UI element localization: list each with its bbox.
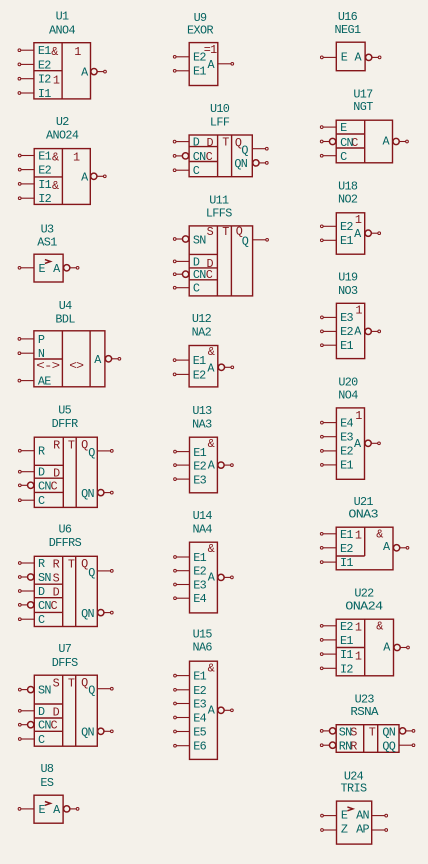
svg-text:AP: AP: [356, 822, 369, 836]
U7 pin SN (inverted set input): [18, 684, 51, 698]
U22 pin A (inverted output): [383, 640, 409, 654]
svg-text:U20: U20: [338, 376, 358, 390]
svg-text:1: 1: [355, 409, 362, 423]
IC U16 (NEG1) body outline: [336, 42, 365, 70]
svg-text:E: E: [341, 809, 348, 823]
IC U13 (NA3) body outline: [190, 437, 218, 493]
U15 pin E1 (input): [174, 670, 207, 684]
svg-text:DFFS: DFFS: [52, 656, 78, 670]
IC U6 (DFFRS) body outline: [34, 556, 97, 626]
U3 value label AS1: [37, 236, 57, 250]
svg-text:NA6: NA6: [192, 641, 212, 655]
svg-text:I1: I1: [340, 556, 353, 570]
svg-text:Q: Q: [81, 557, 88, 571]
svg-text:U3: U3: [41, 223, 54, 237]
svg-text:Q: Q: [88, 566, 95, 580]
U13 reference designator label: [192, 404, 212, 418]
svg-text:E2: E2: [193, 50, 206, 64]
U7 pin D (input): [18, 705, 45, 719]
U10 value label LFF: [210, 115, 230, 129]
svg-text:E1: E1: [193, 551, 206, 565]
svg-text:R: R: [38, 557, 45, 571]
U1 pin I2 (input): [18, 73, 51, 87]
U6 pin D (input): [18, 585, 45, 599]
U10 pin D (input): [173, 136, 200, 150]
svg-text:E1: E1: [38, 150, 51, 164]
svg-text:&: &: [51, 45, 58, 59]
U4 pin A (inverted output): [94, 353, 121, 367]
svg-text:U15: U15: [193, 628, 213, 642]
svg-text:E: E: [39, 262, 46, 276]
svg-text:P: P: [38, 333, 45, 347]
svg-text:NA4: NA4: [192, 522, 212, 536]
U6 pin QN (inverted output): [81, 607, 113, 621]
U1 pin E2 (input): [18, 58, 51, 72]
svg-text:U13: U13: [192, 404, 212, 418]
U7 pin QN (inverted output): [81, 726, 113, 740]
svg-text:U7: U7: [58, 642, 71, 656]
svg-text:QN: QN: [382, 725, 395, 739]
svg-text:BDL: BDL: [55, 313, 75, 327]
U22 pin E1 (input): [320, 634, 353, 648]
svg-text:SN: SN: [38, 571, 51, 585]
U12 value label NA2: [192, 325, 212, 339]
U23 value label RSNA: [350, 705, 379, 719]
IC U10 (LFF) body outline: [189, 135, 252, 177]
svg-text:E2: E2: [193, 368, 206, 382]
IC U2 (ANO24) body outline: [34, 149, 90, 205]
svg-text:1: 1: [355, 528, 362, 542]
svg-text:C: C: [51, 480, 58, 494]
U24 value label TRIS: [341, 782, 367, 796]
U12 reference designator label: [192, 312, 212, 326]
IC U7 (DFFS) body outline: [34, 675, 97, 746]
svg-text:D: D: [38, 466, 45, 480]
U23 pin QQ (output): [382, 740, 414, 754]
svg-text:Q: Q: [81, 438, 88, 452]
svg-text:U16: U16: [338, 10, 358, 24]
svg-text:S: S: [207, 225, 214, 239]
svg-text:E2: E2: [340, 542, 353, 556]
svg-text:E2: E2: [193, 565, 206, 579]
IC U12 (NA2) body outline: [189, 345, 218, 387]
U3 reference designator label: [41, 223, 54, 237]
IC U11 (LFFS) body outline: [189, 224, 252, 296]
U20 value label NO4: [338, 389, 358, 403]
svg-text:E1: E1: [193, 354, 206, 368]
U2 pin I2 (input): [18, 192, 51, 206]
svg-text:Q: Q: [242, 234, 249, 248]
U4 pin N (input): [18, 347, 45, 361]
U9 pin A (output): [208, 58, 234, 72]
svg-text:QN: QN: [81, 607, 94, 621]
U16 value label NEG1: [335, 23, 361, 37]
svg-text:E1: E1: [340, 634, 353, 648]
U23 pin RN (inverted reset input): [320, 740, 352, 754]
U11 value label LFFS: [206, 207, 232, 221]
svg-text:ONA24: ONA24: [345, 599, 383, 613]
svg-text:AS1: AS1: [37, 236, 57, 250]
U11 pin SN (inverted set input): [173, 234, 206, 248]
svg-text:T: T: [68, 677, 75, 691]
svg-text:E3: E3: [193, 474, 206, 488]
U21 pin E1 (input): [320, 528, 353, 542]
svg-text:E5: E5: [193, 726, 206, 740]
svg-text:CN: CN: [340, 136, 353, 150]
svg-text:E2: E2: [340, 620, 353, 634]
svg-text:1: 1: [355, 621, 362, 635]
svg-text:C: C: [340, 150, 347, 164]
U22 value label ONA24: [345, 599, 383, 613]
svg-text:E2: E2: [340, 325, 353, 339]
svg-text:Q: Q: [241, 144, 248, 158]
svg-text:RN: RN: [339, 740, 352, 754]
U7 pin Q (output): [88, 684, 113, 698]
svg-text:T: T: [222, 225, 229, 239]
U11 reference designator label: [209, 194, 229, 208]
U15 value label NA6: [192, 641, 212, 655]
svg-text:C: C: [193, 164, 200, 178]
svg-text:E1: E1: [340, 234, 353, 248]
svg-text:ANO24: ANO24: [46, 128, 79, 142]
svg-text:U14: U14: [193, 509, 213, 523]
U19 pin E3 (input): [321, 311, 354, 325]
svg-text:C: C: [51, 599, 58, 613]
U6 value label DFFRS: [49, 536, 82, 550]
U12 pin E2 (input): [173, 368, 206, 382]
U14 value label NA4: [192, 522, 212, 536]
U20 pin E3 (input): [321, 431, 354, 445]
U21 value label ONA3: [348, 508, 378, 522]
svg-text:D: D: [53, 705, 60, 719]
svg-text:C: C: [206, 150, 213, 164]
U14 pin E2 (input): [174, 565, 207, 579]
U13 pin E1 (input): [174, 446, 207, 460]
svg-text:E: E: [341, 51, 348, 65]
U8 pin E (input): [18, 803, 45, 817]
U5 value label DFFR: [52, 417, 78, 431]
svg-text:&: &: [52, 151, 59, 165]
svg-text:Q: Q: [88, 684, 95, 698]
svg-text:C: C: [51, 719, 58, 733]
U8 pin A (inverted output): [53, 803, 79, 817]
svg-text:D: D: [53, 586, 60, 600]
U15 pin A (inverted output): [208, 704, 234, 718]
U10 pin CN (inverted clock input): [173, 150, 206, 164]
U19 pin A (inverted output): [354, 324, 380, 338]
svg-text:CN: CN: [38, 479, 51, 493]
U17 pin C (input): [320, 150, 347, 164]
svg-text:SN: SN: [38, 684, 51, 698]
svg-text:Z: Z: [341, 822, 348, 836]
U11 pin CN (inverted clock input): [173, 268, 206, 282]
svg-text:D: D: [38, 705, 45, 719]
U24 pin E (input): [321, 809, 348, 823]
U24 reference designator label: [344, 769, 364, 783]
svg-text:C: C: [38, 494, 45, 508]
svg-text:&: &: [208, 437, 215, 451]
U4 value label BDL: [55, 313, 75, 327]
U7 pin C (input): [18, 733, 45, 747]
U7 value label DFFS: [52, 656, 78, 670]
svg-text:&: &: [376, 620, 383, 634]
U15 pin E4 (input): [174, 712, 207, 726]
U8 value label ES: [40, 776, 53, 790]
svg-text:I2: I2: [340, 662, 353, 676]
svg-text:DFFRS: DFFRS: [49, 536, 82, 550]
U1 pin A (inverted output): [81, 66, 106, 80]
U7 reference designator label: [58, 642, 71, 656]
U5 pin R (input): [18, 445, 45, 459]
svg-text:1: 1: [355, 213, 362, 227]
U21 pin A (inverted output): [383, 540, 409, 554]
U5 pin C (input): [18, 494, 45, 508]
U20 reference designator label: [338, 376, 358, 390]
U22 pin I2 (input): [320, 662, 353, 676]
svg-text:N: N: [38, 347, 45, 361]
U6 pin C (input): [18, 613, 45, 627]
U14 pin E1 (input): [174, 551, 207, 565]
U19 value label NO3: [338, 284, 358, 298]
svg-text:1: 1: [355, 650, 362, 664]
svg-text:U8: U8: [41, 762, 54, 776]
svg-text:U6: U6: [59, 523, 72, 537]
U23 reference designator label: [355, 693, 375, 707]
svg-text:<>: <>: [69, 359, 84, 373]
svg-text:E4: E4: [193, 592, 206, 606]
U11 pin C (input): [173, 282, 200, 296]
U2 pin E2 (input): [18, 164, 51, 178]
svg-text:E3: E3: [193, 698, 206, 712]
U14 reference designator label: [193, 509, 213, 523]
IC U24 (TRIS) body outline: [337, 801, 372, 844]
U9 reference designator label: [194, 11, 207, 25]
svg-text:D: D: [207, 136, 214, 150]
U23 pin QN (inverted output): [382, 725, 414, 739]
U17 reference designator label: [353, 87, 373, 101]
U18 pin E1 (input): [320, 234, 353, 248]
U15 pin E5 (input): [174, 726, 207, 740]
IC U5 (DFFR) body outline: [34, 437, 97, 507]
U20 pin A (inverted output): [354, 437, 380, 451]
svg-text:NO2: NO2: [338, 193, 358, 207]
U11 pin Q (output): [242, 234, 269, 248]
U19 pin E1 (input): [321, 339, 354, 353]
svg-text:1: 1: [53, 73, 60, 87]
U24 pin AP (output): [356, 822, 387, 836]
IC U8 (ES) body outline: [34, 795, 63, 823]
svg-text:E4: E4: [340, 416, 353, 430]
U3 pin E (input): [18, 262, 45, 276]
IC U22 (ONA24) body outline: [336, 619, 393, 676]
svg-text:I1: I1: [38, 87, 51, 101]
U1 pin I1 (input): [18, 87, 51, 101]
svg-text:U11: U11: [209, 194, 229, 208]
svg-text:C: C: [206, 268, 213, 282]
U19 pin E2 (input): [321, 325, 354, 339]
svg-text:ES: ES: [40, 776, 53, 790]
svg-text:SN: SN: [339, 725, 352, 739]
U5 pin CN (inverted clock input): [18, 479, 51, 493]
svg-text:E2: E2: [38, 164, 51, 178]
U16 reference designator label: [338, 10, 358, 24]
IC U19 (NO3) body outline: [336, 303, 364, 358]
U22 pin I1 (input): [320, 648, 353, 662]
U10 pin QN (inverted output): [234, 157, 268, 171]
svg-text:E3: E3: [193, 579, 206, 593]
svg-text:LFF: LFF: [210, 115, 230, 129]
U16 pin E (input): [320, 51, 347, 65]
U13 pin A (inverted output): [208, 459, 234, 473]
svg-text:R: R: [53, 439, 60, 453]
svg-text:E2: E2: [340, 220, 353, 234]
svg-text:E: E: [39, 803, 46, 817]
svg-text:T: T: [222, 136, 229, 150]
svg-text:CN: CN: [193, 150, 206, 164]
U5 pin D (input): [18, 466, 45, 480]
IC U23 (RSNA) body outline: [336, 725, 399, 754]
U12 pin A (inverted output): [207, 361, 233, 375]
U17 pin CN (inverted clock input): [320, 136, 353, 150]
U10 pin C (input): [173, 164, 200, 178]
U12 pin E1 (input): [173, 354, 206, 368]
U2 value label ANO24: [46, 128, 79, 142]
IC U9 (EXOR) body outline: [189, 43, 218, 86]
IC U18 (NO2) body outline: [336, 213, 364, 254]
svg-text:E3: E3: [340, 311, 353, 325]
U6 pin Q (output): [88, 566, 113, 580]
svg-text:1: 1: [73, 151, 80, 165]
svg-text:E1: E1: [340, 459, 353, 473]
svg-text:C: C: [38, 733, 45, 747]
U19 reference designator label: [338, 271, 358, 285]
svg-text:SN: SN: [193, 234, 206, 248]
svg-text:AE: AE: [38, 375, 51, 389]
svg-text:E: E: [340, 121, 347, 135]
U1 pin E1 (input): [18, 44, 51, 58]
svg-text:ANO4: ANO4: [49, 24, 75, 38]
U6 pin R (input): [18, 557, 45, 571]
U4 pin P (input): [18, 333, 45, 347]
U6 pin CN (inverted clock input): [18, 599, 51, 613]
U10 pin Q (output): [241, 144, 268, 158]
svg-text:U18: U18: [338, 180, 358, 194]
U15 pin E6 (input): [174, 740, 207, 754]
svg-text:E3: E3: [340, 431, 353, 445]
U6 pin SN (inverted set input): [18, 571, 51, 585]
svg-text:QN: QN: [81, 487, 94, 501]
U23 pin SN (inverted set input): [320, 725, 352, 739]
U18 reference designator label: [338, 180, 358, 194]
U17 pin E (input): [320, 121, 347, 135]
svg-text:QN: QN: [81, 726, 94, 740]
U9 pin E2 (input): [173, 50, 206, 64]
U1 reference designator label: [56, 9, 69, 23]
svg-text:AN: AN: [356, 809, 369, 823]
U9 pin E1 (input): [173, 64, 206, 78]
svg-text:EXOR: EXOR: [187, 24, 213, 38]
U9 value label EXOR: [187, 24, 213, 38]
U4 pin AE (input): [18, 375, 51, 389]
U2 pin I1 (input): [18, 178, 51, 192]
U7 pin CN (inverted clock input): [18, 719, 51, 733]
U16 pin A (inverted output): [355, 51, 381, 65]
U13 pin E3 (input): [174, 474, 207, 488]
IC U3 (AS1) body outline: [34, 254, 63, 282]
U14 pin E4 (input): [174, 592, 207, 606]
svg-text:U2: U2: [56, 115, 69, 129]
svg-text:ONA3: ONA3: [348, 508, 378, 522]
svg-text:E2: E2: [193, 460, 206, 474]
svg-text:U10: U10: [210, 102, 230, 116]
svg-text:U19: U19: [338, 271, 358, 285]
U3 pin A (inverted output): [53, 262, 79, 276]
svg-text:U4: U4: [59, 299, 72, 313]
U8 reference designator label: [41, 762, 54, 776]
U17 pin A (inverted output): [383, 134, 409, 148]
svg-text:RSNA: RSNA: [350, 705, 379, 719]
U20 pin E1 (input): [321, 459, 354, 473]
svg-text:CN: CN: [38, 599, 51, 613]
U20 pin E2 (input): [321, 445, 354, 459]
U15 reference designator label: [193, 628, 213, 642]
U14 pin E3 (input): [174, 579, 207, 593]
svg-text:&: &: [208, 345, 215, 359]
U2 pin E1 (input): [18, 150, 51, 164]
svg-text:=1: =1: [204, 43, 217, 57]
svg-text:C: C: [193, 282, 200, 296]
IC U17 (NGT) body outline: [336, 120, 392, 163]
U24 pin Z (input): [321, 822, 348, 836]
svg-text:NO4: NO4: [338, 389, 358, 403]
U20 pin E4 (input): [321, 416, 354, 430]
svg-text:E2: E2: [340, 445, 353, 459]
U2 reference designator label: [56, 115, 69, 129]
svg-text:DFFR: DFFR: [52, 417, 78, 431]
U22 pin E2 (input): [320, 620, 353, 634]
svg-text:E4: E4: [193, 712, 206, 726]
U24 pin AN (output): [356, 809, 387, 823]
U4 reference designator label: [59, 299, 72, 313]
svg-text:I2: I2: [38, 73, 51, 87]
svg-text:E1: E1: [193, 670, 206, 684]
U6 reference designator label: [59, 523, 72, 537]
IC U14 (NA4) body outline: [190, 542, 218, 613]
svg-text:E1: E1: [340, 339, 353, 353]
svg-text:LFFS: LFFS: [206, 207, 232, 221]
svg-text:E1: E1: [193, 64, 206, 78]
svg-text:D: D: [38, 585, 45, 599]
svg-text:QQ: QQ: [382, 740, 395, 754]
U14 pin A (inverted output): [208, 571, 234, 585]
svg-text:D: D: [193, 136, 200, 150]
IC U21 (ONA3) body outline: [336, 527, 393, 570]
U21 reference designator label: [354, 495, 374, 509]
svg-text:R: R: [38, 445, 45, 459]
svg-text:TRIS: TRIS: [341, 782, 367, 796]
svg-text:T: T: [369, 725, 376, 739]
U18 pin E2 (input): [320, 220, 353, 234]
svg-text:E6: E6: [193, 740, 206, 754]
svg-text:NGT: NGT: [353, 100, 373, 114]
svg-text:E1: E1: [38, 44, 51, 58]
svg-text:C: C: [38, 613, 45, 627]
U15 pin E3 (input): [174, 698, 207, 712]
svg-text:CN: CN: [38, 719, 51, 733]
svg-text:U1: U1: [56, 9, 69, 23]
svg-text:E2: E2: [193, 684, 206, 698]
U10 reference designator label: [210, 102, 230, 116]
